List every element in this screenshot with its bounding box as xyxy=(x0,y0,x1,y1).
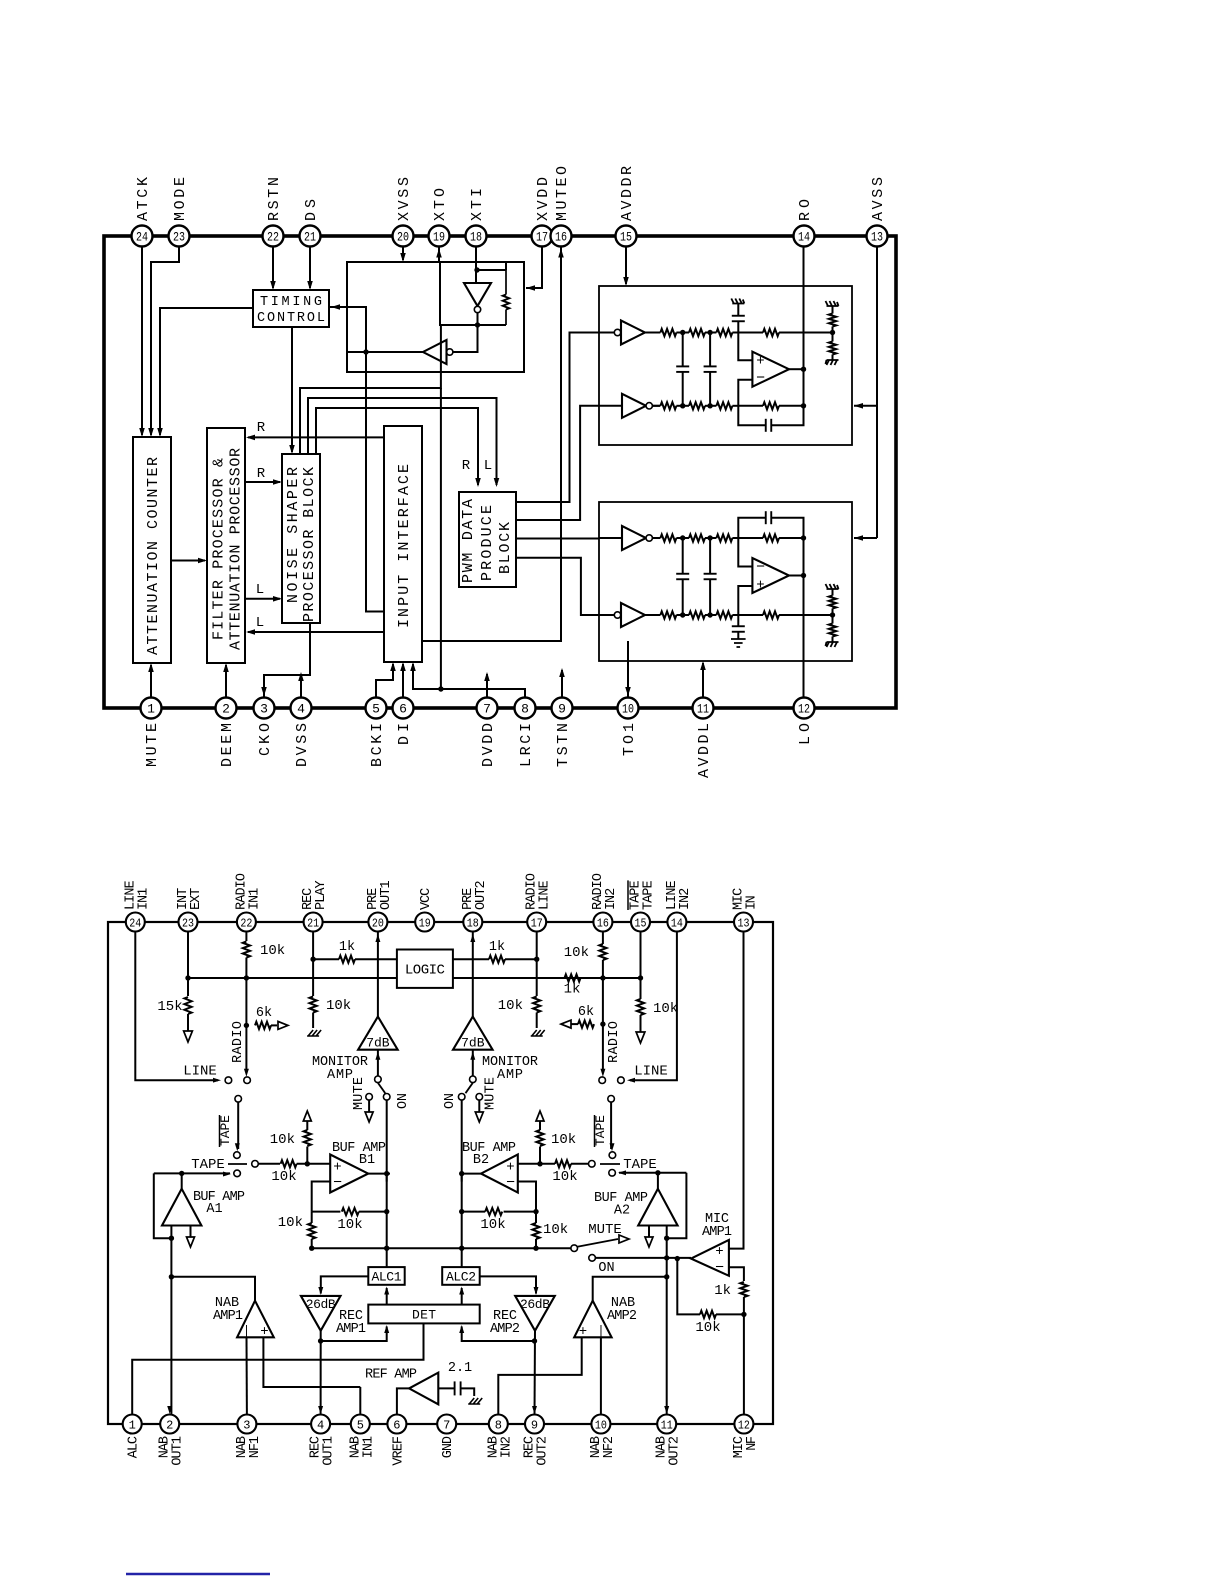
R-channel analog filter block box xyxy=(599,286,852,445)
svg-text:10k: 10k xyxy=(543,1222,568,1238)
pin 10 TO1 (bottom) xyxy=(618,698,639,719)
ground arrow pin15 xyxy=(636,1032,645,1043)
svg-text:10k: 10k xyxy=(480,1217,505,1233)
ground arrow A2 xyxy=(648,1226,650,1238)
capacitor La (ladder) xyxy=(682,538,684,574)
svg-text:3: 3 xyxy=(260,702,268,717)
ground pin17 xyxy=(531,1030,545,1036)
resistor 10k TAPE to B1 xyxy=(258,1163,280,1165)
resistor 10k pin15 xyxy=(637,999,644,1015)
wire LINE IN1 pin24 to selector xyxy=(135,932,218,1081)
svg-text:10k: 10k xyxy=(271,1169,296,1185)
wire L opamp plus input xyxy=(738,586,752,615)
wire clock node up to timing control input xyxy=(329,307,366,352)
resistor 10k B2 plus to VCC xyxy=(539,1147,541,1164)
svg-text:ON: ON xyxy=(598,1261,614,1276)
wire TSTN pin9 stub xyxy=(561,670,563,708)
contact TAPE A1 xyxy=(234,1170,241,1177)
wire feedback inverter output to clock node xyxy=(347,351,423,353)
svg-text:−: − xyxy=(756,559,765,576)
svg-text:20: 20 xyxy=(397,230,409,245)
wire DI pin6 to input interface xyxy=(402,664,404,708)
svg-text:TAPE: TAPE xyxy=(623,1157,657,1173)
ground pin21 xyxy=(307,1030,321,1036)
svg-text:9: 9 xyxy=(558,702,566,717)
svg-text:10k: 10k xyxy=(498,998,523,1014)
block ALC2 xyxy=(442,1267,480,1285)
svg-text:+: + xyxy=(506,1160,514,1176)
pin 11 NAB OUT2 (bottom) xyxy=(657,1415,676,1434)
svg-text:19: 19 xyxy=(419,916,431,930)
svg-text:AVDDR: AVDDR xyxy=(619,166,636,221)
amp REF AMP xyxy=(409,1373,438,1405)
svg-text:1k: 1k xyxy=(564,982,581,998)
svg-text:10: 10 xyxy=(595,1418,607,1432)
pin 13 MIC IN (top) xyxy=(734,913,753,932)
wire MIC amp output xyxy=(667,1257,668,1259)
svg-text:10: 10 xyxy=(622,702,634,717)
resistor 10k B2 feedback xyxy=(504,1211,536,1213)
svg-text:R: R xyxy=(257,466,266,482)
svg-text:8: 8 xyxy=(521,702,529,717)
svg-text:PROCESSOR BLOCK: PROCESSOR BLOCK xyxy=(301,467,318,622)
svg-text:5: 5 xyxy=(357,1418,364,1432)
resistor R row out xyxy=(738,405,763,407)
wire A1 input rail xyxy=(170,1226,172,1239)
svg-text:2.1: 2.1 xyxy=(448,1361,472,1376)
contact LINE right xyxy=(618,1077,625,1084)
radio connector arrow right side xyxy=(571,1023,578,1025)
capacitor Ra (ladder) xyxy=(682,333,684,367)
svg-text:10k: 10k xyxy=(552,1169,577,1185)
svg-text:LINE: LINE xyxy=(538,880,553,910)
svg-text:10k: 10k xyxy=(653,1001,678,1017)
resistor 10k TAPE to B2 xyxy=(571,1163,589,1165)
svg-text:XTI: XTI xyxy=(469,188,486,221)
svg-text:7dB: 7dB xyxy=(461,1036,485,1051)
contact LINE left xyxy=(225,1077,232,1084)
wire R opamp plus input xyxy=(738,333,752,361)
ground ref amp xyxy=(468,1398,482,1404)
svg-text:12: 12 xyxy=(798,702,810,717)
node pin23 junction xyxy=(185,975,190,980)
svg-text:IN1: IN1 xyxy=(361,1436,376,1458)
svg-text:AVDDL: AVDDL xyxy=(696,723,713,778)
capacitor 2.1 ref xyxy=(438,1387,454,1389)
svg-text:LOGIC: LOGIC xyxy=(405,963,445,979)
svg-text:IN: IN xyxy=(745,895,760,910)
wire ON contact 2 to buffer output node xyxy=(461,1100,463,1182)
svg-text:14: 14 xyxy=(671,916,683,930)
pin 24 ATCK (top) xyxy=(132,226,153,247)
svg-text:LINE: LINE xyxy=(183,1064,217,1080)
wire NAB OUT2 pin11 rail xyxy=(666,1238,668,1416)
svg-text:|: | xyxy=(243,1324,250,1338)
svg-text:OUT1: OUT1 xyxy=(322,1436,337,1466)
resistor L bias lower xyxy=(829,624,836,637)
pin 9 REC OUT2 (bottom) xyxy=(525,1415,544,1434)
node MIC amp output tap xyxy=(664,1255,669,1260)
resistor ladder L row 1 xyxy=(660,534,676,541)
wire AVDDR pin15 into R block xyxy=(625,246,627,284)
svg-text:23: 23 xyxy=(182,916,194,930)
svg-text:TO1: TO1 xyxy=(621,723,638,756)
svg-text:OUT1: OUT1 xyxy=(379,880,394,910)
wire DS pin21 to timing control xyxy=(309,246,311,288)
wire monitor amp 2 input xyxy=(472,1050,474,1076)
wire B2 output xyxy=(462,1173,481,1175)
L-channel analog filter block box xyxy=(599,502,852,661)
wire noise shaper L to PWM produce block xyxy=(308,398,497,485)
pin 23 MODE (top) xyxy=(169,226,190,247)
svg-text:+: + xyxy=(333,1160,341,1176)
svg-text:AMP1: AMP1 xyxy=(336,1322,366,1337)
svg-text:10k: 10k xyxy=(564,945,589,961)
svg-text:6k: 6k xyxy=(256,1006,272,1021)
wire ON to mic amp output node xyxy=(595,1257,691,1259)
inverter L2 (PWM driver) xyxy=(614,612,620,618)
contact ON monitor 1 xyxy=(383,1094,390,1101)
resistor 10k mic feedback xyxy=(716,1313,744,1315)
pin 3 NAB NF1 (bottom) xyxy=(237,1415,256,1434)
wire XTO pin19 to inner box xyxy=(438,246,440,262)
mute gnd arrow monitor 2 xyxy=(478,1100,480,1112)
svg-text:IN2: IN2 xyxy=(604,888,619,910)
svg-text:1: 1 xyxy=(147,702,155,717)
contact RADIO right xyxy=(599,1077,606,1084)
wire ALC2 to REC AMP2 xyxy=(480,1276,536,1293)
contact ON monitor 2 xyxy=(458,1094,465,1101)
wire A2 input rail xyxy=(666,1226,668,1239)
pin 18 XTI (top) xyxy=(466,226,487,247)
resistor 6k right xyxy=(578,1020,594,1027)
pin 4 REC OUT1 (bottom) xyxy=(311,1415,330,1434)
wire attenuation counter to filter processor xyxy=(171,560,205,562)
svg-text:B2: B2 xyxy=(473,1153,489,1168)
svg-text:24: 24 xyxy=(136,230,148,245)
svg-text:24: 24 xyxy=(129,916,141,930)
contact RADIO left xyxy=(244,1077,251,1084)
wire PWM out to R-block bottom row xyxy=(516,406,599,520)
inverter R1 (PWM driver) xyxy=(614,329,620,335)
wire RO pin14 from R block opamp xyxy=(803,246,805,369)
control bus line LOGIC to pin15 xyxy=(453,977,641,979)
pin 2 NAB OUT1 (bottom) xyxy=(160,1415,179,1434)
pin 6 DI (bottom) xyxy=(393,698,414,719)
svg-text:16: 16 xyxy=(597,916,609,930)
wire DET to ALC pin1 xyxy=(132,1323,423,1415)
pin 19 XTO (top) xyxy=(429,226,450,247)
svg-text:MUTE: MUTE xyxy=(352,1077,367,1110)
node pin15 junction xyxy=(638,975,643,980)
svg-text:ALC1: ALC1 xyxy=(372,1270,402,1285)
pin 5 NAB IN1 (bottom) xyxy=(351,1415,370,1434)
svg-text:20: 20 xyxy=(372,916,384,930)
wire NAB OUT1 pin2 rail xyxy=(170,1238,172,1416)
mute switch arm xyxy=(577,1239,618,1247)
node REC2 DET tap xyxy=(532,1338,537,1343)
wire MUTE pin1 to attenuation counter xyxy=(150,665,152,708)
wire NAB1 minus to pin3 xyxy=(246,1337,248,1415)
op-amp BUF AMP B2 xyxy=(481,1155,518,1193)
wire AVSS tap to L block xyxy=(854,537,877,539)
svg-text:TAPE: TAPE xyxy=(642,880,657,910)
wire NAB2 plus to pin8 xyxy=(498,1337,581,1415)
wire NAB2 output link xyxy=(593,1277,667,1301)
wire REC PLAY pin21 chain xyxy=(312,932,314,997)
ground arrow A1 xyxy=(190,1226,192,1238)
wire BCKI pin5 to input interface xyxy=(376,664,393,708)
pin 8 NAB IN2 (bottom) xyxy=(489,1415,508,1434)
ground arrow pin23 xyxy=(187,1014,189,1031)
pin 5 BCKI (bottom) xyxy=(366,698,387,719)
wire NAB1 plus to pin5 xyxy=(263,1337,360,1387)
node B2 plus input xyxy=(537,1161,542,1166)
resistor 10k B1 feedback xyxy=(312,1211,341,1213)
op-amp BUF AMP A1 xyxy=(162,1189,201,1226)
capacitor Rb (ladder) xyxy=(709,333,711,367)
pin 11 AVDDL (bottom) xyxy=(693,698,714,719)
svg-text:B1: B1 xyxy=(359,1153,375,1168)
resistor 1k left to LOGIC xyxy=(313,958,339,960)
svg-text:|: | xyxy=(597,1324,604,1338)
wire DEEM pin2 to filter processor xyxy=(225,665,227,708)
wire clock run from oscillator to noise shaper xyxy=(300,325,441,454)
wire osc output down to feedback inverter xyxy=(453,325,478,352)
resistor 1k (bus right) xyxy=(565,974,581,981)
wire monitor amp 1 output to pin xyxy=(377,932,379,1017)
svg-text:IN2: IN2 xyxy=(499,1436,514,1458)
inverter L1 (PWM driver) xyxy=(622,526,646,550)
pin 19 VCC (top) xyxy=(415,913,434,932)
radio connector arrow left side xyxy=(271,1024,277,1026)
wire MUTEO pin16 from input interface xyxy=(422,246,561,641)
oscillator outer box xyxy=(347,262,524,372)
resistor 1k LOGIC to pin17 xyxy=(453,958,489,960)
op-amp R xyxy=(752,352,789,387)
contact mute bus xyxy=(571,1245,578,1252)
pin 15 AVDDR (top) xyxy=(616,226,637,247)
resistor L row out xyxy=(738,614,763,616)
wire NAB2 minus to pin10 xyxy=(600,1337,602,1415)
svg-text:10k: 10k xyxy=(337,1217,362,1233)
node clock to timing/input-interface xyxy=(363,349,368,354)
svg-text:IN1: IN1 xyxy=(136,888,151,910)
op-amp L xyxy=(752,558,789,593)
pin 14 RO (top) xyxy=(794,226,815,247)
pin 17 XVDD (top) xyxy=(532,226,553,247)
node NAB1 output tap xyxy=(169,1274,174,1279)
node REC1 DET tap xyxy=(318,1338,323,1343)
node pin21 junction xyxy=(310,957,315,962)
svg-text:ALC: ALC xyxy=(127,1436,142,1458)
contact MUTE monitor 2 xyxy=(476,1094,483,1101)
svg-text:+: + xyxy=(579,1324,587,1340)
inverter U-osc (crystal inverter) xyxy=(464,283,491,306)
svg-text:−: − xyxy=(715,1260,724,1277)
node B1 mute bus xyxy=(309,1246,314,1251)
contact tape-bar left xyxy=(234,1152,241,1159)
wire XTI pin18 to inverter xyxy=(475,246,477,283)
block ALC1 xyxy=(368,1267,404,1285)
svg-text:17: 17 xyxy=(531,916,543,930)
pin 21 DS (top) xyxy=(300,226,321,247)
svg-text:9: 9 xyxy=(531,1418,538,1432)
svg-text:VREF: VREF xyxy=(391,1436,406,1466)
wire XVDD pin17 into osc box xyxy=(526,246,542,288)
node pin22 bus junction xyxy=(244,975,249,980)
wire timing control to attenuation counter xyxy=(160,308,253,435)
svg-text:AMP2: AMP2 xyxy=(607,1309,637,1324)
wire DET to ALC2 arrow xyxy=(461,1288,463,1305)
svg-text:13: 13 xyxy=(871,230,883,245)
node B2 feedback xyxy=(459,1209,464,1214)
svg-text:16: 16 xyxy=(555,230,567,245)
svg-text:LINE: LINE xyxy=(634,1064,668,1080)
wire monitor amp 2 output to pin xyxy=(472,932,474,1017)
wire selector pole down left xyxy=(237,1102,239,1149)
svg-text:26dB: 26dB xyxy=(306,1297,336,1312)
contact TAPE A2 xyxy=(609,1170,616,1177)
svg-text:ON: ON xyxy=(396,1093,411,1109)
node mic feedback xyxy=(741,1312,746,1317)
svg-text:INPUT INTERFACE: INPUT INTERFACE xyxy=(396,464,413,628)
svg-text:BLOCK: BLOCK xyxy=(497,522,514,574)
resistor R bias lower xyxy=(829,342,836,355)
contact ON center xyxy=(589,1255,596,1262)
pin 10 NAB NF2 (bottom) xyxy=(591,1415,610,1434)
wire LINE IN2 pin14 to selector xyxy=(630,932,677,1081)
pin 15 /TAPE TAPE (top) xyxy=(631,913,650,932)
pin 8 LRCI (bottom) xyxy=(515,698,536,719)
wire MODE pin23 to attenuation counter xyxy=(151,246,179,435)
capacitor Rc (node to rail) xyxy=(737,322,739,333)
wire A1 output to tape contact xyxy=(181,1173,183,1188)
svg-text:IN1: IN1 xyxy=(247,888,262,910)
wire REC AMP1 output to pin4 xyxy=(320,1331,322,1416)
arrow into RADIO contact right xyxy=(600,1069,605,1077)
op-amp BUF AMP A2 xyxy=(638,1189,677,1226)
pin 1 ALC (bottom) xyxy=(123,1415,142,1434)
svg-text:17: 17 xyxy=(536,230,548,245)
wire selector pole down right xyxy=(610,1102,612,1149)
resistor ladder R row 2 xyxy=(660,402,676,409)
wire input interface L to filter xyxy=(248,631,384,633)
pin 18 PRE OUT2 (top) xyxy=(463,913,482,932)
wire CKO pin3 from noise shaper xyxy=(264,623,310,698)
contact tape-bar right xyxy=(609,1152,616,1159)
svg-text:IN2: IN2 xyxy=(678,888,693,910)
wire LO pin12 from L block opamp xyxy=(803,576,805,709)
wire PWM out to L-block top row xyxy=(516,538,599,540)
resistor 10k B2 minus to mute bus xyxy=(532,1223,539,1239)
wire MIC IN pin13 to plus input xyxy=(729,932,744,1249)
switch arm monitor 2 xyxy=(466,1083,473,1093)
pin 9 TSTN (bottom) xyxy=(552,698,573,719)
svg-text:VCC: VCC xyxy=(419,888,434,910)
monitor amp 1 (7dB) xyxy=(358,1017,398,1050)
svg-text:MUTE: MUTE xyxy=(588,1222,622,1238)
pin 12 MIC NF (bottom) xyxy=(734,1415,753,1434)
overline pin15 TAPE xyxy=(627,880,629,910)
svg-text:7: 7 xyxy=(483,702,491,717)
node mic feedback tap on output xyxy=(675,1256,680,1261)
wire RSTN pin22 to timing control xyxy=(272,246,274,288)
IC2 outer boundary box xyxy=(108,922,773,1424)
inverter U-fb (feedback inverter, output left) xyxy=(447,349,453,355)
svg-text:10k: 10k xyxy=(695,1320,720,1336)
op-amp NAB AMP2 xyxy=(574,1301,611,1338)
wire RADIO IN2 pin16 chain xyxy=(602,932,604,945)
svg-text:RADIO: RADIO xyxy=(231,1021,246,1063)
svg-text:OUT2: OUT2 xyxy=(474,880,489,910)
wire R out row to opamp output node xyxy=(779,405,804,407)
svg-text:AMP: AMP xyxy=(497,1068,523,1083)
svg-text:4: 4 xyxy=(297,702,305,717)
svg-text:XTO: XTO xyxy=(432,188,449,221)
node NAB2 output tap xyxy=(664,1274,669,1279)
wire REC AMP2 output to pin9 xyxy=(534,1331,537,1416)
wire DVDD pin7 stub xyxy=(486,674,488,708)
oscillator inner box xyxy=(440,262,506,325)
svg-text:+: + xyxy=(756,578,764,594)
contact MUTE monitor 1 xyxy=(366,1094,373,1101)
pin 24 LINE IN1 (top) xyxy=(126,913,145,932)
svg-text:CONTROL: CONTROL xyxy=(257,311,325,326)
contact monitor 1 pole xyxy=(375,1076,382,1083)
wire REC1 to DET xyxy=(321,1327,387,1342)
resistor 10k B1 minus to mute bus xyxy=(308,1223,315,1239)
svg-text:1k: 1k xyxy=(714,1283,731,1299)
wire DET to ALC1 arrow xyxy=(386,1288,388,1305)
svg-text:18: 18 xyxy=(470,230,482,245)
block TIMING CONTROL xyxy=(253,290,329,327)
mute gnd arrow monitor 1 xyxy=(368,1100,370,1112)
wire input interface R to filter xyxy=(248,436,384,438)
resistor 15k on pin23 xyxy=(184,997,191,1014)
resistor 1k mic xyxy=(740,1282,747,1297)
svg-text:ON: ON xyxy=(443,1093,458,1109)
selector pole right xyxy=(608,1096,615,1103)
svg-text:12: 12 xyxy=(738,1418,750,1432)
svg-text:22: 22 xyxy=(267,230,279,245)
resistor 6k left xyxy=(255,1022,271,1029)
svg-text:R: R xyxy=(462,458,471,474)
pin 16 RADIO IN2 (top) xyxy=(593,913,612,932)
wire monitor amp 1 input xyxy=(377,1050,379,1076)
svg-text:21: 21 xyxy=(307,916,319,930)
vcc arrow B2 xyxy=(536,1111,544,1121)
IC1 outer boundary box xyxy=(104,236,896,708)
amp REC AMP1 26dB xyxy=(301,1296,341,1331)
svg-text:−: − xyxy=(756,370,765,387)
resistor 10k pin21 to gnd xyxy=(310,997,317,1013)
node pin16 bus junction xyxy=(600,975,605,980)
svg-text:1: 1 xyxy=(129,1418,136,1432)
svg-text:10k: 10k xyxy=(326,998,351,1014)
wire AVDDL pin11 into L block xyxy=(702,663,704,708)
capacitor Lb (ladder) xyxy=(709,538,711,574)
svg-text:10k: 10k xyxy=(270,1132,295,1148)
pin 20 PRE OUT1 (top) xyxy=(368,913,387,932)
wire PWM out to L-block bottom row xyxy=(516,558,599,615)
wire B1 minus input to feedback xyxy=(312,1182,331,1212)
wire MIC minus input xyxy=(729,1267,744,1281)
svg-text:PLAY: PLAY xyxy=(314,880,329,910)
wire timing control to noise shaper xyxy=(291,327,293,452)
pin 12 LO (bottom) xyxy=(794,698,815,719)
node XTI junction xyxy=(474,267,479,272)
